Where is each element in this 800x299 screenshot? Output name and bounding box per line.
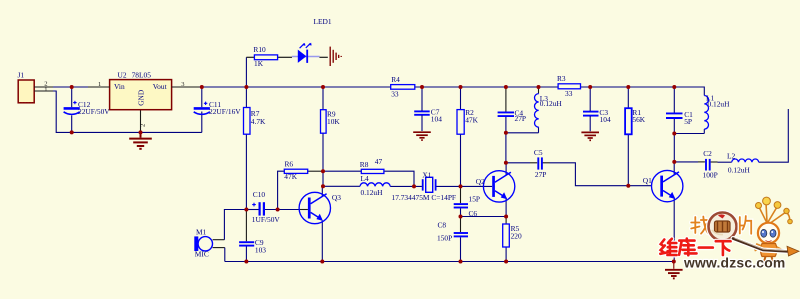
resistor R2 <box>457 108 479 134</box>
svg-text:22UF/50V: 22UF/50V <box>78 107 110 116</box>
capacitor C2 <box>706 159 710 171</box>
J1 pin stubs <box>34 87 53 91</box>
wire L3 top stub <box>538 87 540 133</box>
svg-text:J1: J1 <box>18 71 25 80</box>
wire Q1 emitter to ground point <box>673 197 675 261</box>
junction dots on ground bus <box>70 130 143 134</box>
wire tank2 bottom link C1-L1 <box>674 133 704 135</box>
wire C1 bottom to tank2 node <box>673 119 675 134</box>
U2 pin 2 label <box>140 124 147 127</box>
wire C12 top leg <box>71 87 73 107</box>
junction dots bottom rail <box>244 260 675 264</box>
svg-text:U2: U2 <box>118 71 127 80</box>
watermark text weikuyixia <box>660 239 730 256</box>
watermark magnifier glass <box>709 213 737 241</box>
wire R5 bottom to ground rail <box>505 247 507 262</box>
wire R10 branch up from rail <box>245 57 247 87</box>
ground under U2 <box>129 133 152 149</box>
wire C12 bottom leg <box>71 115 73 132</box>
wire node C to C6 top <box>460 186 462 203</box>
microphone M1 <box>194 228 212 259</box>
transistor Q1 <box>643 170 683 201</box>
wire R10 row <box>246 56 327 58</box>
svg-text:47K: 47K <box>284 172 297 181</box>
svg-text:LED1: LED1 <box>314 17 332 26</box>
svg-text:2: 2 <box>140 124 147 127</box>
ground bottom right <box>665 270 683 279</box>
inductor L4 <box>360 174 390 197</box>
svg-text:R8: R8 <box>360 160 369 169</box>
capacitor C1 <box>666 113 683 118</box>
wire Q2 collector vertical <box>505 163 507 176</box>
svg-text:33: 33 <box>391 89 399 98</box>
wire Q1 collector node to C2 left <box>674 161 705 163</box>
svg-text:4.7K: 4.7K <box>251 117 266 126</box>
ground for LED (rotated) <box>330 47 341 66</box>
regulator U2 78L05 <box>110 71 172 110</box>
svg-text:104: 104 <box>431 115 442 124</box>
transistor Q2 <box>476 171 515 202</box>
resistor R10 <box>253 45 277 68</box>
wire node A to R8 left <box>323 170 361 172</box>
wire ground rail corner to ground symbol <box>673 262 675 269</box>
capacitor C5 <box>538 157 542 169</box>
resistor R7 <box>244 108 267 135</box>
wire C11 bottom leg <box>201 112 203 133</box>
wire C8 bottom to ground rail <box>460 237 462 261</box>
connector J1 <box>18 71 35 103</box>
wire Q2 collector node to C5 left <box>506 162 537 164</box>
wire VCC rail J1 to U2 Vin <box>34 86 109 88</box>
wire node D to C8 top <box>460 217 462 233</box>
svg-text:L4: L4 <box>361 174 370 183</box>
svg-text:www.dzsc.com: www.dzsc.com <box>683 255 785 271</box>
wire R6 left leg down to base wire <box>278 171 285 209</box>
wire tank node down to Q2 collector node <box>505 133 507 163</box>
capacitor C11 <box>194 100 242 116</box>
wire Q3 emitter to bottom rail <box>321 221 323 262</box>
svg-text:0.12uH: 0.12uH <box>708 100 731 109</box>
wire R1 bottom to base line <box>627 134 629 185</box>
svg-text:1K: 1K <box>254 59 264 68</box>
svg-text:C2: C2 <box>703 149 712 158</box>
svg-text:220: 220 <box>511 232 522 241</box>
wire L1 bottom stub <box>703 129 705 133</box>
wire node B to L4 left <box>323 185 360 187</box>
svg-text:47: 47 <box>375 157 383 166</box>
ground under C7 <box>413 132 431 140</box>
svg-text:X1: X1 <box>422 170 431 179</box>
watermark char zhao <box>691 217 708 234</box>
wire L4 right to X1 left <box>390 185 422 187</box>
wire C3 leads <box>589 87 591 131</box>
svg-text:GND: GND <box>136 89 145 106</box>
svg-text:Vout: Vout <box>153 82 168 91</box>
ground under C3 <box>581 132 599 140</box>
wire rail to R7 top <box>245 87 247 108</box>
U2 pin 1 label <box>98 81 101 88</box>
svg-text:33: 33 <box>565 89 573 98</box>
wire C2 right to L2 left <box>711 161 732 163</box>
watermark spear handle <box>733 238 799 256</box>
watermark mascot <box>755 197 793 264</box>
diode LED1 <box>292 43 320 63</box>
resistor R5 <box>503 224 522 247</box>
capacitor C7 <box>414 111 430 114</box>
wire R2 bottom to node C <box>460 134 462 186</box>
crystal X1 <box>392 170 457 202</box>
svg-text:MIC: MIC <box>195 250 209 259</box>
svg-text:0.12uH: 0.12uH <box>540 99 563 108</box>
wire node C to Q2 base <box>461 185 493 187</box>
junction dots on VCC rail <box>70 85 677 89</box>
wire C11 top leg <box>201 87 203 107</box>
wire C5 right to Q1 base <box>542 163 651 186</box>
inductor L1 <box>704 93 730 129</box>
wire Q2 emitter vertical <box>505 198 507 217</box>
resistor R3 <box>557 74 581 98</box>
capacitor C8 <box>454 233 468 236</box>
wire R9 bottom to node A <box>322 133 324 171</box>
wire rail to C1 top <box>673 87 675 113</box>
wire L2 right to antenna stub <box>759 109 789 162</box>
svg-text:104: 104 <box>600 115 611 124</box>
resistor R4 <box>391 75 415 98</box>
svg-text:100P: 100P <box>703 171 718 180</box>
svg-text:47K: 47K <box>465 116 478 125</box>
wire tank bottom link C4-L3 <box>506 132 539 134</box>
svg-text:R3: R3 <box>557 74 566 83</box>
svg-text:Q3: Q3 <box>332 193 341 202</box>
U2 pin 1 stub <box>88 86 110 88</box>
J1 pin 1 label <box>44 86 47 93</box>
wire U2 Vout to R4 left <box>172 86 391 88</box>
wire U2 GND pin to bus <box>140 110 142 133</box>
wire J1 pin1 down to ground bus <box>34 91 71 132</box>
wire node A to node B <box>322 171 324 186</box>
svg-text:27P: 27P <box>515 114 527 123</box>
transistor Q3 <box>299 192 341 223</box>
capacitor C4 <box>498 112 514 116</box>
wire rail to R9 top <box>322 87 324 110</box>
svg-text:C8: C8 <box>438 221 447 230</box>
resistor R1 <box>625 108 646 134</box>
junction dots tank nodes <box>504 131 676 165</box>
LED1 net label <box>314 17 332 26</box>
wire C10 right plate to Q3 base <box>265 209 308 211</box>
wire R3 right to L1 top corner <box>581 87 705 96</box>
U2 pin 3 label <box>181 81 185 88</box>
svg-text:27P: 27P <box>535 170 547 179</box>
svg-text:103: 103 <box>255 246 266 255</box>
junction dots mic node <box>244 208 279 212</box>
wire bottom ground rail <box>225 261 674 263</box>
resistor R8 <box>360 157 384 174</box>
U2 pin 3 stub <box>172 86 200 88</box>
capacitor C12 <box>64 100 111 116</box>
svg-text:R6: R6 <box>285 159 294 168</box>
wire rail to R2 top <box>460 87 462 110</box>
svg-text:Vin: Vin <box>114 82 125 91</box>
inductor L3 <box>535 94 563 128</box>
wire ground bus under U2 <box>72 131 202 133</box>
wire mic top lead to bias node <box>213 210 247 240</box>
svg-text:R4: R4 <box>391 75 400 84</box>
wire Q2 emitter node to R5 top <box>505 217 507 225</box>
svg-text:Q1: Q1 <box>643 176 652 185</box>
capacitor C9 <box>239 242 254 245</box>
svg-text:15P: 15P <box>469 195 481 204</box>
wire mic bottom lead to ground rail <box>213 248 225 262</box>
wire tank2 node to Q1 collector node <box>673 134 675 162</box>
wire rail to R1 top <box>627 87 629 108</box>
svg-text:10K: 10K <box>327 117 340 126</box>
wire mic node to C9 to bottom rail <box>245 210 247 262</box>
svg-text:R10: R10 <box>253 45 266 54</box>
wire R8 right corner down to L4 net <box>384 171 414 186</box>
wire C4 bottom to tank node <box>505 117 507 133</box>
svg-text:17.734475M C=14PF: 17.734475M C=14PF <box>392 193 457 202</box>
svg-text:5P: 5P <box>684 117 692 126</box>
svg-text:C5: C5 <box>534 148 543 157</box>
svg-text:0.12uH: 0.12uH <box>361 188 384 197</box>
svg-text:78L05: 78L05 <box>132 71 152 80</box>
wire R4 right to R3 left <box>415 86 558 88</box>
resistor R6 <box>284 159 307 181</box>
inductor L2 <box>727 152 759 175</box>
wire R6 right to node A <box>308 170 323 172</box>
capacitor C10 <box>260 202 264 215</box>
J1 pin 2 label <box>44 80 47 87</box>
watermark url <box>683 255 785 271</box>
wire X1 right to node C <box>436 185 460 187</box>
wire Q1 collector vertical <box>673 162 675 175</box>
watermark char pian <box>740 216 751 234</box>
svg-text:0.12uH: 0.12uH <box>728 165 751 174</box>
capacitor C3 <box>583 112 599 116</box>
wire rail to C4 top <box>505 87 507 112</box>
wire mic node to C10 left plate <box>246 209 258 211</box>
svg-text:C6: C6 <box>469 209 478 218</box>
resistor R9 <box>321 109 341 133</box>
wire C6 bottom to node D <box>460 208 462 216</box>
wire C7 leads <box>421 87 423 131</box>
svg-text:L2: L2 <box>727 152 736 161</box>
svg-text:150P: 150P <box>437 234 452 243</box>
svg-text:22UF/16V: 22UF/16V <box>209 107 241 116</box>
svg-text:M1: M1 <box>196 228 207 237</box>
junction dots oscillator nodes <box>321 169 630 218</box>
svg-text:C10: C10 <box>253 190 266 199</box>
wire R7 bottom to mic node <box>245 134 247 209</box>
svg-text:1UF/50V: 1UF/50V <box>252 215 281 224</box>
wire node D to Q2 emitter node <box>461 216 507 218</box>
svg-text:Q2: Q2 <box>476 177 485 186</box>
wire node B to Q3 collector <box>321 186 323 197</box>
capacitor C6 <box>454 204 468 207</box>
svg-text:56K: 56K <box>632 115 645 124</box>
